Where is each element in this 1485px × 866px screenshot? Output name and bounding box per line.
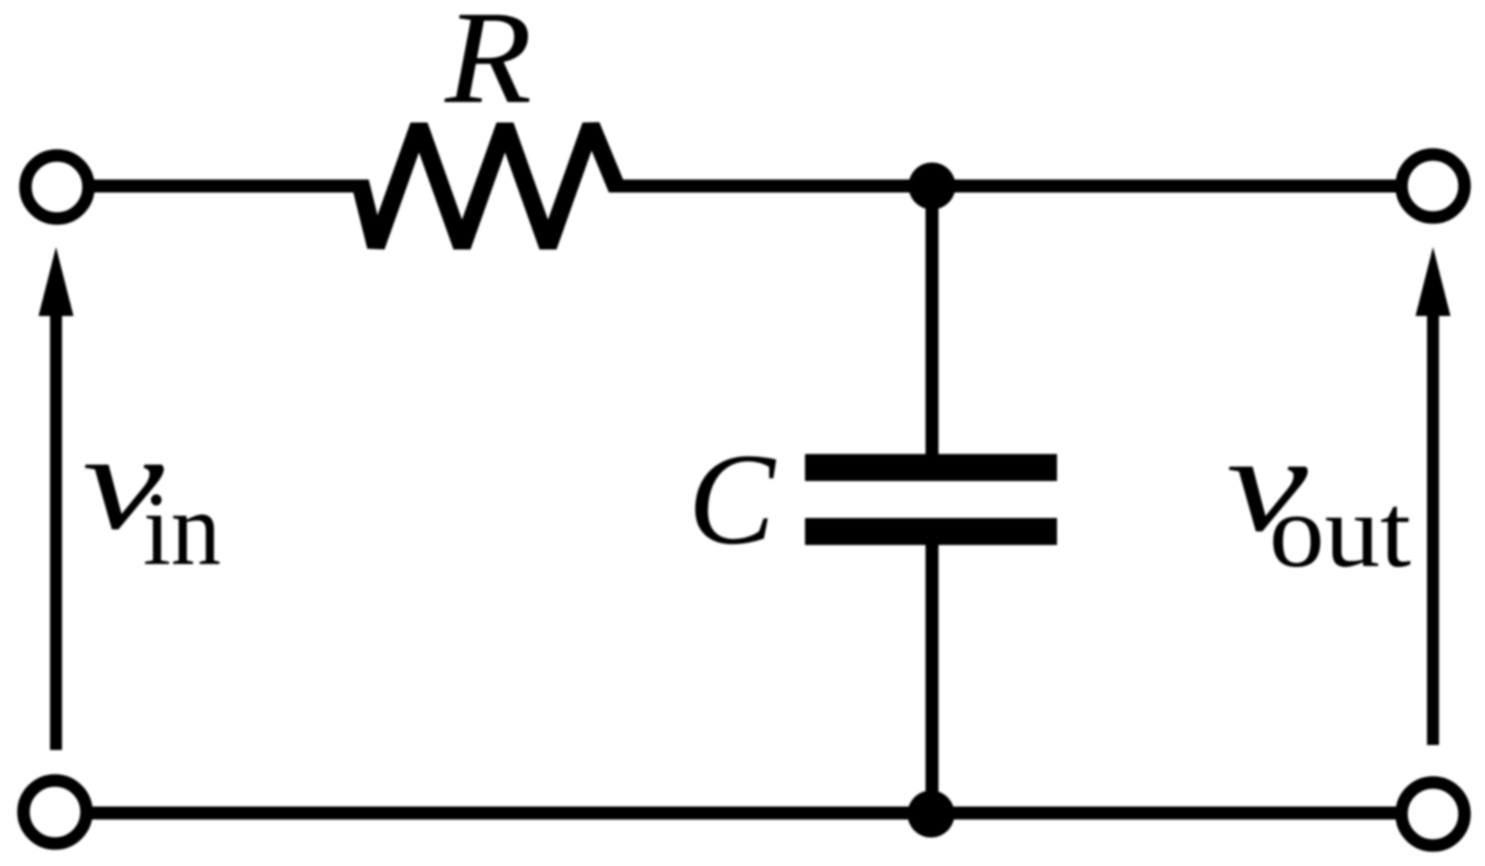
- svg-text:R: R: [444, 0, 532, 131]
- svg-text:in: in: [143, 470, 221, 587]
- svg-text:out: out: [1269, 472, 1411, 589]
- svg-text:C: C: [688, 427, 777, 572]
